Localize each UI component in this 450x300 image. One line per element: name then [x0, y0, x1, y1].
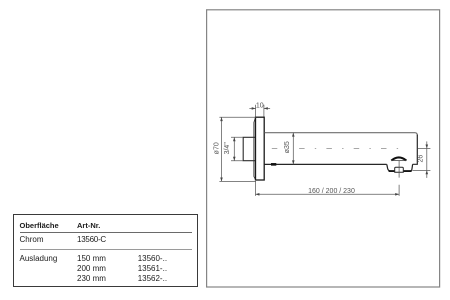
dimension 160/200/230 extension lines	[256, 181, 400, 196]
spout tube right edge	[413, 135, 418, 165]
aerator insert	[395, 167, 404, 172]
dimension 3/4 inch extension lines	[231, 137, 243, 160]
frame border	[207, 10, 440, 287]
table header rule	[20, 232, 192, 233]
connector 3/4 inch nipple	[243, 137, 255, 160]
svg-text:26: 26	[417, 155, 424, 163]
wall flange plate	[256, 117, 265, 180]
spout tube top edge	[264, 133, 417, 136]
spout tube bottom edge	[264, 163, 386, 165]
dimension d70 line	[221, 117, 223, 181]
svg-text:10: 10	[256, 102, 264, 109]
aerator chord line	[391, 160, 406, 162]
svg-text:160 / 200 / 230: 160 / 200 / 230	[308, 188, 355, 195]
dimension 10 line and arrows	[249, 107, 270, 109]
dimension 26 extension lines	[412, 148, 430, 170]
svg-text:3/4": 3/4"	[224, 142, 231, 155]
dimension 26 line	[426, 141, 428, 178]
flange rim chamfer	[254, 118, 256, 180]
table text: ausladung rows	[20, 255, 58, 263]
table text: header	[20, 222, 59, 230]
data table box	[13, 214, 199, 287]
aerator dome arc	[391, 157, 406, 160]
svg-text:ø35: ø35	[284, 141, 291, 153]
svg-text:ø70: ø70	[214, 142, 221, 154]
dimension 3/4 inch line	[233, 137, 235, 160]
table text: row chrom	[20, 236, 44, 244]
outlet vertical centerline	[398, 161, 400, 178]
centerline (spout axis)	[245, 147, 408, 149]
dimension d35 line	[292, 133, 294, 165]
outlet boss bottom thick edge	[389, 170, 412, 172]
outlet boss outline	[387, 164, 413, 171]
table section rule	[20, 249, 192, 250]
set screw mark on tube bottom	[271, 163, 276, 166]
dimension 10 extension lines	[256, 105, 264, 117]
dimension 160/200/230 line	[256, 193, 400, 195]
dimension d70 extension lines	[219, 117, 256, 181]
